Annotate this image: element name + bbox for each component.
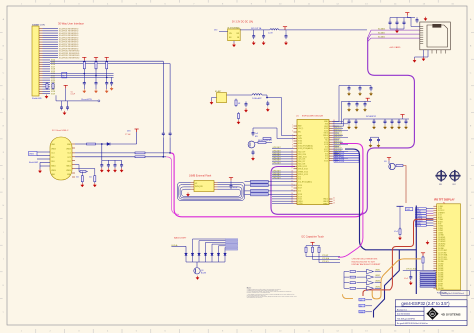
fiducial FD2	[449, 170, 461, 182]
orange route LED supply	[372, 259, 421, 299]
LED D3	[191, 251, 194, 263]
resistor R21 pull-up	[95, 60, 97, 70]
display connector pin stubs	[433, 206, 436, 288]
svg-text:GPIO-NET: GPIO-NET	[273, 177, 281, 179]
svg-text:10 IM0: 10 IM0	[438, 226, 443, 228]
display connector P1 body	[437, 204, 461, 290]
svg-text:4D: 4D	[431, 312, 434, 316]
regulator U4 body	[228, 29, 241, 41]
svg-text:30-Way User Interface: 30-Way User Interface	[58, 22, 84, 26]
svg-text:0.1uF: 0.1uF	[233, 187, 237, 189]
wire J1 long UART RX	[50, 63, 170, 65]
ground bar symbol display reset	[397, 205, 404, 207]
MCU U1 left wire net labels	[273, 147, 281, 180]
svg-text:28 DB1: 28 DB1	[438, 266, 443, 268]
power flag flash 3V3	[229, 178, 233, 181]
uSD gnd pins down	[415, 50, 429, 59]
svg-text:ESP-IO17: ESP-IO17	[335, 148, 342, 150]
wire CC2 step	[75, 169, 95, 175]
capacitor C41 row3	[355, 119, 358, 125]
wire D+ to junction	[145, 152, 171, 154]
capacitor C42 row3	[373, 119, 376, 125]
gate G3 output wire	[375, 282, 381, 284]
svg-text:17 LEDK3: 17 LEDK3	[438, 241, 445, 243]
svg-text:25: 25	[291, 190, 293, 192]
svg-text:20 GND: 20 GND	[438, 248, 445, 250]
net label boxes right of MCU	[334, 151, 359, 162]
capacitor C32 row2	[364, 101, 367, 107]
wire VBUS 5V	[75, 143, 87, 145]
svg-text:26: 26	[291, 193, 293, 195]
svg-text:37 RS: 37 RS	[438, 286, 442, 288]
notes text block	[247, 287, 297, 299]
ground C42	[372, 125, 375, 129]
MCU U1 right wires	[333, 122, 349, 161]
svg-text:13 IM3: 13 IM3	[438, 232, 443, 234]
capacitor C12 usb rail	[114, 160, 116, 162]
net label box usb left	[29, 152, 38, 156]
svg-text:BL-EN: BL-EN	[201, 273, 207, 275]
svg-text:SD-DAT2: SD-DAT2	[378, 35, 385, 38]
svg-text:31 DB4: 31 DB4	[438, 272, 443, 274]
svg-text:VBUS: VBUS	[29, 154, 33, 156]
svg-text:IO4_RTC10(ADC): IO4_RTC10(ADC)	[298, 180, 312, 183]
backlight feed wire down	[185, 246, 187, 250]
net box TFT-RESET far left	[405, 208, 413, 211]
touch signal wires	[306, 254, 340, 263]
ground C14	[266, 108, 269, 112]
uSD bus entries to signal wires	[368, 30, 371, 41]
capacitor C14 antenna node	[266, 101, 269, 107]
backlight staircase wires	[193, 239, 226, 251]
svg-text:ESP32-WROOM-32E: ESP32-WROOM-32E	[302, 116, 324, 118]
capacitor C15 EN 1uF	[252, 131, 255, 137]
svg-text:5V 3.3V DC-DC (3A): 5V 3.3V DC-DC (3A)	[232, 20, 253, 23]
antenna part U3 body	[217, 93, 227, 103]
svg-text:11 IM1: 11 IM1	[438, 228, 443, 230]
wire USB D- to series resistor	[75, 156, 135, 158]
MCU right wire labels	[335, 127, 343, 157]
capacitor C46 row3	[405, 119, 408, 125]
svg-text:ESP-TFT-D0: ESP-TFT-D0	[335, 152, 344, 154]
transistor Q1 reset	[248, 141, 255, 148]
svg-text:10: 10	[291, 151, 293, 153]
flash chip U2 body	[194, 181, 214, 192]
svg-text:DN1: DN1	[51, 161, 54, 163]
svg-text:12: 12	[291, 155, 293, 157]
svg-text:SBU2: SBU2	[66, 166, 70, 168]
svg-text:5k1: 5k1	[76, 177, 79, 179]
svg-text:GPIO-NET: GPIO-NET	[273, 163, 281, 165]
wire TFT-RESET down to RC	[399, 206, 401, 229]
svg-text:5 CS: 5 CS	[438, 215, 442, 217]
ground R4	[93, 183, 96, 187]
resistor R6 series D-	[135, 156, 145, 158]
display connector pin names	[438, 206, 448, 290]
buffer gate G4	[367, 286, 374, 290]
svg-text:ESP-RXD0: ESP-RXD0	[335, 134, 343, 136]
flash wire loop bundle	[178, 182, 245, 200]
svg-text:12 IM2: 12 IM2	[438, 230, 443, 232]
ground Q1 emitter	[251, 157, 254, 161]
resistor RCC horizontal	[80, 171, 86, 173]
svg-text:8 SDO: 8 SDO	[438, 221, 444, 223]
usb differential pair bus route	[171, 144, 363, 217]
wire J1 long UART TX	[50, 60, 163, 62]
svg-text:SD-DAT0: SD-DAT0	[378, 27, 385, 30]
MCU U1 left pin names	[298, 125, 313, 206]
diode D1 on VBUS	[107, 143, 137, 146]
svg-text:IO33_RTC8(ADC5): IO33_RTC8(ADC5)	[298, 147, 313, 150]
ground C13	[120, 168, 123, 172]
wire long to touch row	[403, 269, 436, 271]
capacitor C31 row2	[356, 101, 359, 107]
svg-text:29 DB2: 29 DB2	[438, 268, 443, 270]
ground C11	[107, 168, 110, 172]
wires upper net boxes to connector	[426, 208, 433, 210]
svg-text:BACKLIGHT: BACKLIGHT	[174, 237, 187, 240]
svg-text:26 GND: 26 GND	[438, 261, 445, 263]
ground C31	[355, 108, 358, 112]
resistor R7 antenna shunt	[235, 99, 237, 107]
svg-text:U2: U2	[195, 183, 197, 185]
svg-text:20: 20	[291, 175, 293, 177]
capacitor C61 dcdc	[263, 30, 265, 34]
resistor R62 touch pullup	[318, 246, 320, 254]
ground R12	[398, 236, 401, 240]
decoupling row 2 rail with 3V3 flag	[366, 98, 370, 101]
svg-text:DN2: DN2	[67, 161, 70, 163]
svg-text:Revision 1.0: Revision 1.0	[397, 309, 407, 311]
resistor R11 Q2 base	[396, 165, 403, 167]
resistor R60 touch pullup	[305, 246, 307, 254]
svg-text:ESP-IO18: ESP-IO18	[335, 143, 342, 145]
connector J1 body	[32, 26, 39, 96]
backlight bottom rail	[186, 261, 225, 263]
ground reset caps	[63, 111, 66, 115]
ground usb shield	[38, 169, 41, 173]
svg-text:14: 14	[291, 160, 293, 162]
svg-text:CHOOSE LED-K RESISTORS: CHOOSE LED-K RESISTORS	[352, 259, 378, 261]
svg-text:SD0_IO7: SD0_IO7	[298, 161, 305, 163]
ground C80	[409, 281, 412, 285]
navy branch diagonal to title area	[374, 250, 400, 318]
ground antenna	[212, 97, 217, 99]
svg-text:TXD0: TXD0	[298, 203, 302, 205]
wire caps to reset node	[61, 101, 63, 105]
svg-text:13: 13	[291, 158, 293, 160]
svg-text:LEDK4: LEDK4	[375, 286, 380, 288]
svg-text:22: 22	[291, 180, 293, 182]
svg-text:TFT-SCL: TFT-SCL	[416, 216, 422, 218]
MCU U1 right pin stubs	[329, 122, 333, 204]
MCU U1 right pin names	[323, 121, 328, 205]
svg-text:0.1uF: 0.1uF	[404, 278, 408, 280]
svg-text:5V0: 5V0	[360, 300, 363, 302]
LED D5	[204, 251, 207, 263]
ground C21	[358, 92, 361, 96]
svg-text:16MB External Flash: 16MB External Flash	[189, 175, 212, 178]
4D Systems logo diamond	[426, 308, 438, 320]
capacitor C60 dcdc	[253, 30, 255, 34]
svg-text:2 VCI: 2 VCI	[438, 208, 443, 210]
fiducial FD1	[435, 170, 447, 182]
flash harness net boxes lower	[251, 189, 269, 196]
svg-text:T-RST: T-RST	[406, 209, 410, 211]
svg-text:LEDK3: LEDK3	[375, 281, 380, 283]
LED D4	[198, 251, 201, 263]
title block fields	[397, 309, 428, 325]
capacitor C11 usb rail	[107, 160, 109, 162]
LED driver net box wires	[365, 300, 372, 312]
power flag reset pull-up	[64, 85, 68, 88]
output wire SW node	[240, 29, 270, 31]
junction dots column 2	[106, 77, 108, 79]
uSD signal wires	[371, 30, 420, 38]
capacitor C70 uSD	[389, 18, 391, 21]
svg-text:ESP-NC: ESP-NC	[335, 139, 342, 141]
svg-text:IO17: IO17	[298, 188, 302, 190]
svg-text:16: 16	[291, 165, 293, 167]
svg-text:GPIO-NET: GPIO-NET	[273, 147, 281, 149]
svg-text:DP1: DP1	[51, 157, 54, 159]
svg-text:17: 17	[291, 168, 293, 170]
display upper net label boxes	[415, 208, 426, 227]
row1 riser wire	[333, 86, 346, 122]
svg-text:Shield-GND: Shield-GND	[32, 98, 42, 100]
power flag display IOVCC pull	[421, 253, 425, 256]
svg-text:IO29: IO29	[51, 93, 55, 95]
svg-text:2.4GHz ANT: 2.4GHz ANT	[252, 97, 261, 100]
ground U4	[233, 41, 235, 43]
wire reset node	[65, 88, 67, 101]
display lower net label boxes	[420, 272, 436, 287]
uSD card socket CON1	[420, 22, 451, 50]
wire UART RX vertical	[169, 64, 171, 131]
svg-text:36 WR: 36 WR	[438, 283, 444, 285]
ground R8	[237, 120, 240, 124]
svg-text:38 GND: 38 GND	[438, 288, 445, 290]
power flag IO0 circuit	[387, 158, 391, 161]
junction dots column 0	[84, 73, 86, 75]
ground uSD 2	[422, 57, 425, 61]
capacitor C3	[105, 80, 108, 86]
ground C60	[252, 41, 255, 45]
resistor R52 gate input	[350, 282, 356, 284]
ground C46	[404, 125, 407, 129]
bulk capacitors on 5V rail	[101, 144, 103, 160]
svg-text:CC2: CC2	[67, 153, 70, 155]
svg-text:ESP-IO19: ESP-IO19	[335, 141, 342, 143]
inductor L2 dcdc	[270, 29, 279, 30]
gate G1 output wire	[375, 271, 381, 273]
svg-text:28: 28	[291, 198, 293, 200]
resistor R8 lower	[237, 112, 239, 120]
svg-text:22 CTP-INT: 22 CTP-INT	[438, 252, 447, 254]
capacitor C2	[95, 80, 98, 86]
wires flash to MCU	[245, 182, 296, 195]
junction RX/D+	[169, 152, 171, 154]
junction VBUS caps	[101, 143, 103, 145]
USB1 internal pin names	[51, 144, 71, 176]
resistor R1 vertical	[46, 82, 48, 90]
junction TX/D-	[162, 156, 164, 158]
ground C43	[383, 125, 386, 129]
svg-text:IO16: IO16	[298, 185, 302, 187]
touch top rail	[306, 245, 320, 247]
transistor Q2 auto-program	[389, 163, 395, 169]
svg-text:9 TE: 9 TE	[438, 224, 441, 226]
ground C22	[369, 92, 372, 96]
svg-text:CC1: CC1	[51, 153, 54, 155]
power flag 3V3 dcdc	[283, 27, 287, 30]
flash U2 pin stubs	[191, 182, 218, 189]
resistor R22 pull-up	[106, 60, 108, 70]
svg-text:16 LEDK2: 16 LEDK2	[438, 239, 445, 241]
ground C20	[347, 92, 350, 96]
svg-text:G: G	[470, 179, 472, 181]
ground below R1 R2	[45, 95, 48, 99]
svg-text:FD2: FD2	[453, 184, 456, 186]
wire from J1 to reset node	[55, 95, 57, 101]
title block outline	[395, 300, 467, 326]
navy vertical along display connector	[415, 206, 417, 295]
svg-text:I2C Capacitive Touch: I2C Capacitive Touch	[301, 235, 324, 238]
three bus wires from J1 to pull-up bank	[50, 74, 114, 78]
resistor R50 gate input	[350, 271, 356, 273]
resistor R5 series D+	[135, 152, 145, 154]
resistor R20 pull-up	[83, 60, 85, 70]
svg-text:14 GND: 14 GND	[438, 235, 445, 237]
svg-text:ESP-TXD0: ESP-TXD0	[335, 132, 343, 134]
capacitor C20 row1	[348, 86, 351, 92]
svg-text:J: J	[3, 258, 4, 260]
resistor R2 vertical	[52, 82, 54, 90]
power flag uSD 3V3	[405, 13, 409, 16]
svg-text:DISPLAY BACKLIGHT CURRENT: DISPLAY BACKLIGHT CURRENT	[352, 263, 382, 266]
svg-text:LEDK2: LEDK2	[375, 275, 380, 277]
orange stub at LED driver	[343, 294, 354, 298]
resistor R12 display reset	[399, 228, 401, 236]
svg-text:gen4-ESP32 (2.4″ to 3.5″): gen4-ESP32 (2.4″ to 3.5″)	[401, 301, 450, 306]
svg-text:3V3 OUT 3A: 3V3 OUT 3A	[251, 27, 262, 30]
MCU U1 left pin stubs	[294, 126, 298, 204]
svg-text:0.1uF: 0.1uF	[71, 94, 75, 96]
svg-text:32 DB5: 32 DB5	[438, 274, 443, 276]
LED D2	[185, 251, 188, 263]
svg-text:Reset-BTN: Reset-BTN	[81, 98, 92, 101]
LED D8	[224, 251, 227, 263]
svg-text:G: G	[3, 179, 5, 181]
uSD decoupling rail	[390, 17, 415, 19]
MCU U1 pin numbers left	[291, 125, 293, 205]
svg-text:Title 4DS-gen4-ESP32: Title 4DS-gen4-ESP32	[397, 317, 415, 320]
capacitor C40 row3	[348, 119, 351, 125]
svg-text:23: 23	[291, 184, 293, 186]
capacitor C43 row3	[384, 119, 387, 125]
wire matching to MCU antenna pin	[262, 95, 295, 136]
ground uSD 1	[413, 59, 416, 63]
capacitor C80 touch vdd	[410, 271, 412, 275]
svg-text:4.7uF: 4.7uF	[394, 231, 398, 233]
svg-text:24: 24	[291, 187, 293, 189]
decoupling row 1 rail	[345, 85, 371, 87]
wire antenna to matching network	[227, 94, 253, 96]
transistor Q3 backlight	[194, 268, 200, 274]
capacitor C10 usb rail	[101, 160, 103, 162]
svg-text:24 CTP-SCL: 24 CTP-SCL	[438, 257, 447, 259]
svg-text:ESP-TFT-D4: ESP-TFT-D4	[335, 161, 344, 163]
svg-text:3V3-ESP32: 3V3-ESP32	[366, 116, 376, 118]
svg-text:FB: FB	[237, 37, 239, 39]
junction antenna node	[266, 97, 268, 99]
svg-text:15 LEDK1: 15 LEDK1	[438, 237, 445, 239]
svg-text:CTP-SCL: CTP-SCL	[322, 261, 329, 263]
buffer gate G3	[367, 281, 374, 285]
ground below C4	[110, 87, 113, 91]
inductor L1 antenna match	[252, 94, 262, 95]
ground right of C73	[424, 17, 427, 21]
navy route MCU pair down to flex rail	[345, 149, 416, 250]
backlight net box stack	[226, 239, 238, 251]
capacitor C4	[111, 77, 113, 80]
svg-text:DP2: DP2	[68, 157, 71, 159]
svg-text:ESP-TFT-D3: ESP-TFT-D3	[335, 159, 344, 161]
capacitor C1	[83, 80, 86, 86]
LED driver input bus vertical	[343, 272, 345, 289]
uSD socket pins	[420, 27, 423, 44]
USB1 right pin stubs	[72, 144, 75, 177]
ground C10	[100, 168, 103, 172]
svg-text:MTCK_IO13: MTCK_IO13	[298, 169, 307, 171]
gate G4 output wire	[375, 287, 381, 289]
svg-text:R50,R51,R52,R53 TO SUIT: R50,R51,R52,R53 TO SUIT	[352, 261, 376, 263]
svg-text:3 IOVCC: 3 IOVCC	[438, 210, 445, 212]
resistor R61 touch pullup	[311, 246, 313, 254]
uSD card bus route	[271, 38, 414, 215]
svg-text:21 CTP-RST: 21 CTP-RST	[438, 250, 447, 252]
capacitor C44 row3	[391, 119, 394, 125]
MCU U1 pin numbers right	[333, 120, 335, 204]
net label box on I2C bus wires	[62, 72, 67, 78]
capacitor C21 row1	[359, 86, 362, 92]
ground C41	[354, 125, 357, 129]
svg-text:IO0: IO0	[298, 179, 301, 181]
svg-text:27: 27	[291, 195, 293, 197]
grounds C50 C51	[369, 143, 372, 147]
svg-text:EN: EN	[360, 306, 362, 308]
capacitor C62 dcdc out	[285, 30, 287, 34]
capacitor C45 row3	[398, 119, 401, 125]
svg-text:6 SCL: 6 SCL	[438, 217, 443, 219]
ground R3	[81, 183, 84, 187]
svg-text:30: 30	[291, 202, 293, 204]
ground C40	[347, 125, 350, 129]
input wire 5V to U4	[219, 31, 228, 33]
capacitor C7	[66, 105, 69, 111]
ground C12	[113, 168, 116, 172]
svg-text:FD1: FD1	[439, 184, 442, 186]
svg-text:IO35: IO35	[298, 143, 302, 145]
wire D- to junction	[145, 156, 166, 158]
ground below C3	[105, 89, 108, 93]
buffer gate G2	[367, 275, 374, 279]
svg-text:uSD CARD: uSD CARD	[389, 46, 400, 49]
fuse F1 on VBUS	[87, 143, 96, 145]
LED driver net boxes	[359, 298, 365, 313]
capacitor C73 uSD	[416, 17, 418, 20]
capacitor C72 uSD	[403, 18, 405, 21]
